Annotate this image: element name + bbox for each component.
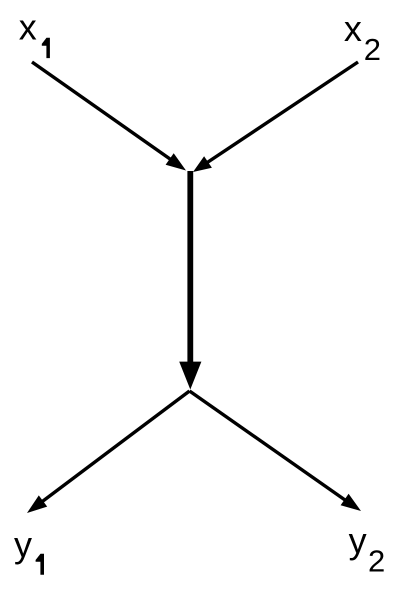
- arrowhead y1: [27, 495, 47, 513]
- svg-text:y: y: [14, 524, 32, 565]
- svg-text:x: x: [19, 7, 37, 48]
- svg-text:x: x: [344, 8, 362, 49]
- arrowhead y2: [341, 494, 361, 511]
- svg-text:2: 2: [368, 544, 385, 579]
- arrowhead x2: [193, 156, 212, 172]
- wire x1 to junction: [32, 62, 180, 166]
- arrowhead vertical trunk: [179, 362, 201, 390]
- wire x2 to junction: [199, 62, 358, 168]
- svg-text:2: 2: [364, 32, 381, 67]
- wire junction to y2: [190, 391, 356, 507]
- svg-text:y: y: [349, 520, 367, 561]
- arrowhead x1: [166, 153, 186, 170]
- wire junction to y1: [33, 391, 190, 509]
- wire vertical trunk: [187, 171, 193, 364]
